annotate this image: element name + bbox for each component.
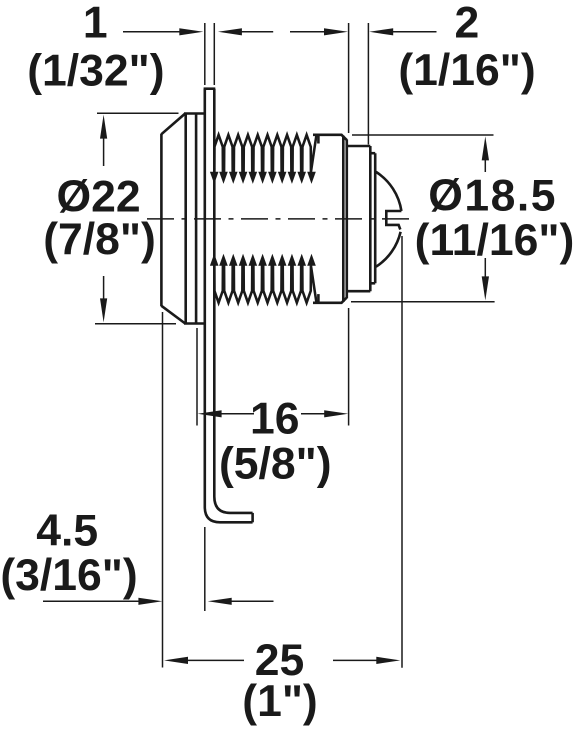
thread root fill top <box>210 172 316 184</box>
svg-text:2: 2 <box>455 0 480 47</box>
label 4.5 <box>36 507 98 556</box>
body bottom edge <box>313 298 347 303</box>
dim 1 left shaft <box>123 31 181 33</box>
thread bottom zigzag <box>214 266 316 303</box>
dim 25 left shaft <box>186 659 244 661</box>
bezel right edge <box>374 153 377 283</box>
dim d22 ext top <box>97 112 179 114</box>
ring top edge <box>348 145 370 148</box>
dim 4.5 ext flange <box>162 312 164 668</box>
dim 16 ext left <box>196 328 198 426</box>
dim 25 ext right <box>401 236 403 668</box>
arrow d22 down <box>100 298 107 322</box>
svg-text:16: 16 <box>250 395 300 444</box>
svg-text:(11/16"): (11/16") <box>415 216 575 265</box>
label (7/8") <box>43 215 156 264</box>
dome upper arc <box>376 172 401 211</box>
dim d22 ext bottom <box>95 323 176 325</box>
dim 2 left shaft <box>290 31 326 33</box>
flange head front face <box>160 134 163 307</box>
dim 16 right shaft <box>301 413 326 415</box>
dim 2 ext right <box>367 23 369 145</box>
flange top edge <box>184 112 205 115</box>
arrow 16 left-point <box>198 410 222 417</box>
flange bottom chamfer <box>161 306 185 324</box>
thread top zigzag <box>214 135 316 172</box>
arrow 4.5 right-point <box>138 598 162 605</box>
label (1") <box>242 677 318 726</box>
arrow dim1 right-point <box>179 28 203 35</box>
svg-text:(1"): (1") <box>242 677 318 726</box>
cam plate top edge <box>204 87 216 90</box>
label (5/8") <box>219 440 332 489</box>
body top edge <box>313 135 347 140</box>
arrow 25 left-point <box>164 657 188 664</box>
dim 4.5 left shaft <box>43 600 140 602</box>
arrow 25 right-point <box>376 657 400 664</box>
arrow d22 up <box>100 115 107 139</box>
label 25 <box>255 636 305 685</box>
arrow dim1 left-point <box>218 28 242 35</box>
thread root fill bottom <box>210 254 316 266</box>
svg-text:(7/8"): (7/8") <box>43 215 156 264</box>
flange inner line A <box>184 114 187 324</box>
flange bottom edge <box>184 322 205 325</box>
arrow d18.5 down <box>482 276 489 300</box>
dim 1 ext left <box>204 23 206 85</box>
dim 2 right shaft <box>391 31 437 33</box>
dim d18.5 ext bottom <box>351 301 495 303</box>
bezel top edge <box>370 152 375 155</box>
dim 4.5 right shaft <box>229 600 274 602</box>
svg-text:(1/16"): (1/16") <box>398 46 535 95</box>
svg-text:(3/16"): (3/16") <box>0 551 137 600</box>
label (11/16") <box>415 216 575 265</box>
arrow 4.5 left-point <box>208 598 232 605</box>
label (1/16") <box>398 46 535 95</box>
dim 16 ext right <box>348 308 350 426</box>
label 16 <box>250 395 300 444</box>
dim d18.5 lower shaft <box>484 258 486 279</box>
svg-text:(5/8"): (5/8") <box>219 440 332 489</box>
label diameter 18.5 <box>428 171 557 220</box>
ring bottom edge <box>348 290 370 293</box>
dim 1 ext right <box>213 23 215 85</box>
svg-text:1: 1 <box>83 0 108 48</box>
ring right edge <box>369 146 372 291</box>
center line <box>147 218 410 220</box>
cam plate left edge and foot outer bend <box>205 89 253 523</box>
dim 2 ext left <box>348 23 350 133</box>
svg-text:(1/32"): (1/32") <box>27 47 164 96</box>
dim 16 left shaft <box>220 413 254 415</box>
label diameter 22 <box>57 173 141 222</box>
body chamfer inner line <box>342 136 345 302</box>
thread runout bottom <box>317 294 320 302</box>
arrow d18.5 up <box>482 136 489 160</box>
dim 25 right shaft <box>333 659 378 661</box>
dome lower arc <box>376 232 401 267</box>
svg-text:4.5: 4.5 <box>36 507 98 556</box>
bezel bottom edge <box>370 282 375 285</box>
dim d22 upper shaft <box>103 136 105 166</box>
svg-text:Ø18.5: Ø18.5 <box>428 171 557 220</box>
arrow dim2 right-point <box>324 28 348 35</box>
dim 4.5 ext plate <box>204 527 206 611</box>
cam plate right edge and foot inner bend <box>214 89 252 513</box>
dim d18.5 upper shaft <box>484 158 486 172</box>
thread runout top <box>317 135 320 143</box>
dim 1 right shaft <box>240 31 273 33</box>
flange inner line B <box>195 114 198 324</box>
arrow 16 right-point <box>324 410 348 417</box>
label 1 <box>83 0 108 48</box>
label (3/16") <box>0 551 137 600</box>
label (1/32") <box>27 47 164 96</box>
label 2 <box>455 0 480 47</box>
key notch <box>386 211 401 230</box>
cam foot end face <box>251 513 254 522</box>
body right face <box>345 140 348 299</box>
flange top chamfer <box>161 114 185 135</box>
dim d18.5 ext top <box>352 134 494 136</box>
dim d22 lower shaft <box>103 276 105 301</box>
arrow dim2 left-point <box>369 28 393 35</box>
